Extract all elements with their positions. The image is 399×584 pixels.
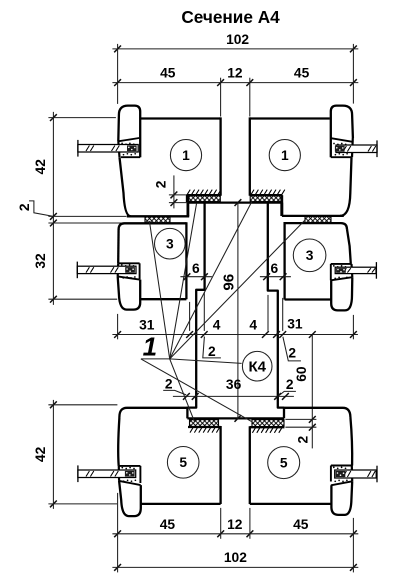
frame-3-left pocket bottom diagonal xyxy=(118,276,140,279)
svg-text:1: 1 xyxy=(143,332,157,362)
frame-5-right outer edge through pocket xyxy=(351,466,354,482)
svg-text:2: 2 xyxy=(17,203,32,211)
crosshatch seal under frame-1-left xyxy=(186,195,220,201)
svg-text:2: 2 xyxy=(286,377,294,392)
frame-3-left nose xyxy=(118,276,141,309)
svg-text:60: 60 xyxy=(294,366,309,382)
extension x=117.6 bottom xyxy=(117,493,119,573)
extension line y=223.0 left xyxy=(48,222,127,224)
frame-3-right left edge xyxy=(283,222,285,300)
leader ray to bottom-left seal xyxy=(170,359,195,422)
dimension 60-2 vertical line xyxy=(311,335,313,449)
frame-1-right outer edge through pocket xyxy=(351,138,354,157)
frame-1-right outer flange xyxy=(331,106,353,158)
dimension 2 top-junction ticks xyxy=(171,192,178,199)
svg-text:5: 5 xyxy=(179,455,187,470)
mullion upper-right outer wall xyxy=(280,203,283,216)
frame-5-left inner edge xyxy=(219,426,221,504)
frame-5-left rebate top edge xyxy=(188,426,221,428)
svg-text:36: 36 xyxy=(226,377,242,392)
frame-3-right nose xyxy=(331,277,352,310)
frame-5-right bar anchor end xyxy=(336,471,346,477)
frame-3-right pocket left edge xyxy=(330,264,332,280)
leader ray to left mullion seal xyxy=(170,203,197,359)
frame-1-right pocket top diagonal xyxy=(331,138,353,142)
dimension 2 mid-right leader xyxy=(283,337,301,361)
svg-text:45: 45 xyxy=(160,66,176,81)
frame-5-right inner edge xyxy=(249,426,251,504)
extension for mid ticks right-outer xyxy=(282,298,284,331)
mullion left wall with step xyxy=(187,203,204,419)
dimension 102 bottom ticks xyxy=(114,564,121,571)
frame-5-right steel bar xyxy=(335,470,377,478)
extension x=249.9 bottom xyxy=(249,508,251,539)
dimension 45-12-45 top line xyxy=(112,82,358,84)
frame-5-left pocket top edge xyxy=(119,465,141,467)
svg-text:К4: К4 xyxy=(248,358,266,375)
crosshatch seal under frame-1-right xyxy=(250,195,282,201)
extension x=220.7 bottom xyxy=(220,508,222,539)
frame-1-left steel bar xyxy=(78,145,138,153)
frame-3-left pocket top edge xyxy=(118,262,139,264)
frame-1-left pocket top diagonal xyxy=(118,138,139,141)
leader ray to K4 circle xyxy=(170,359,242,364)
frame-5-left pocket dots xyxy=(121,467,123,469)
frame-3-left bar anchor end xyxy=(125,267,135,273)
frame-5-left outer edge xyxy=(118,418,119,466)
frame-1-left outer edge through pocket xyxy=(118,141,119,157)
dimension 36 ticks xyxy=(183,393,190,400)
frame-3-right outer edge upper xyxy=(347,229,351,264)
circle label 1 left xyxy=(170,140,201,171)
frame-1-left pocket dots xyxy=(121,142,123,144)
leader ray to bottom-right seal xyxy=(141,359,252,422)
frame-5-right top edge with corner xyxy=(285,408,351,417)
svg-text:45: 45 xyxy=(293,517,309,532)
dimension 2 bottom-right leader xyxy=(279,391,296,395)
extension y=202.6 top-junction xyxy=(169,202,188,204)
dimension 2 left leader xyxy=(29,201,53,217)
frame-1-right box left edge xyxy=(249,117,251,195)
comb marks above left mullion seal xyxy=(187,190,221,196)
crosshatch seal frame1-frame3 left xyxy=(145,216,170,222)
frame-5-right rebate top edge xyxy=(250,426,285,428)
circle label 5 left xyxy=(167,447,199,479)
svg-text:102: 102 xyxy=(226,32,249,47)
extension y=427.2 right xyxy=(285,426,316,428)
frame-3-right outer edge through pocket xyxy=(350,264,353,277)
svg-text:6: 6 xyxy=(271,261,279,276)
frame-5-left top edge with corner xyxy=(119,408,187,418)
svg-text:6: 6 xyxy=(192,261,200,276)
dimension 45-12-45 bottom line xyxy=(112,533,358,535)
frame-5-left steel bar xyxy=(78,470,136,478)
dimension 102 top line xyxy=(112,48,358,50)
svg-text:32: 32 xyxy=(33,253,48,269)
svg-text:31: 31 xyxy=(139,318,155,333)
svg-text:4: 4 xyxy=(249,318,257,333)
leader ray to right frame seal xyxy=(170,220,306,359)
dimension 2 mid-left leader xyxy=(203,337,221,358)
extension x=117.6 mid xyxy=(117,314,119,339)
frame-3-left steel bar xyxy=(77,266,136,273)
frame-1-right steel bar xyxy=(336,145,377,153)
dimension 96 line xyxy=(237,203,239,419)
frame-1-left outer flange xyxy=(118,106,140,158)
leader label 1 underline xyxy=(141,358,170,360)
svg-text:31: 31 xyxy=(287,317,303,332)
svg-text:42: 42 xyxy=(33,446,48,462)
extension for mid ticks left-outer xyxy=(189,302,191,331)
svg-text:12: 12 xyxy=(227,517,243,532)
frame-5-right nose xyxy=(331,481,352,515)
extension line left outer top xyxy=(117,44,119,104)
svg-text:2: 2 xyxy=(165,377,173,392)
svg-text:96: 96 xyxy=(221,274,238,291)
frame-3-right pocket top edge xyxy=(331,263,351,265)
svg-text:3: 3 xyxy=(306,248,314,263)
svg-text:45: 45 xyxy=(160,517,176,532)
mullion right wall with step xyxy=(268,203,284,419)
frame-1-left box bottom edge xyxy=(186,194,220,196)
svg-text:Сечение А4: Сечение А4 xyxy=(181,7,280,27)
dimension 31-4-4-31 ticks xyxy=(114,331,121,338)
frame-3-left pocket dots xyxy=(121,264,123,266)
frame-3-left bottom edge xyxy=(140,298,186,300)
dimension 6 left ticks xyxy=(184,273,191,280)
frame-1-left box top edge xyxy=(141,117,221,119)
svg-text:12: 12 xyxy=(227,66,243,81)
circle label 3 right xyxy=(293,239,326,272)
crosshatch seal frame1-frame3 right xyxy=(305,216,331,222)
frame-5-left bar anchor end xyxy=(125,471,135,477)
frame-1-left pocket bottom edge xyxy=(121,156,140,158)
frame-5-right pocket bottom diagonal xyxy=(331,481,352,485)
extension line y=117.6 left xyxy=(48,117,116,119)
frame-3-left top edge with corner xyxy=(119,223,187,229)
frame-5-left pocket bottom diagonal xyxy=(119,481,141,485)
frame-1-left flange lower outer edge xyxy=(120,157,131,216)
extension for mid ticks right-inner xyxy=(267,295,269,331)
svg-text:45: 45 xyxy=(294,66,310,81)
svg-text:5: 5 xyxy=(280,455,288,470)
extension line x=220.6 top xyxy=(220,78,222,117)
mullion bottom edge xyxy=(187,417,284,419)
extension line y=404.8 left xyxy=(48,404,117,406)
frame-1-right pocket bottom edge xyxy=(331,156,352,158)
frame-5-right outer edge xyxy=(350,417,352,466)
frame-3-right pocket bottom diagonal xyxy=(331,277,353,280)
svg-text:2: 2 xyxy=(288,346,296,361)
dimension 2 top-junction line xyxy=(173,175,175,208)
dimension 42 left-bottom ticks xyxy=(50,401,57,408)
svg-text:4: 4 xyxy=(213,318,221,333)
extension line right outer top xyxy=(352,44,354,104)
dimension 31-4-4-31 line xyxy=(112,334,358,336)
frame-1-left box right edge xyxy=(219,117,221,195)
dimension 45-12-45 bottom ticks xyxy=(114,530,121,537)
frame-3-left pocket right edge xyxy=(139,263,141,279)
frame-1-right box top edge xyxy=(250,117,330,119)
dimension 36 line xyxy=(173,395,294,397)
frame-1-right step wall xyxy=(280,195,283,216)
dimension 2 bottom-left leader xyxy=(163,390,186,395)
svg-text:3: 3 xyxy=(166,237,174,252)
extension y=194.9 top-junction xyxy=(169,194,186,196)
extension x=353.4 bottom xyxy=(352,518,354,573)
frame-5-right pocket dots xyxy=(333,467,335,469)
circle label 3 left xyxy=(155,228,186,259)
extension x=353.4 mid xyxy=(352,315,354,339)
dimension 45-12-45 top ticks xyxy=(114,79,121,86)
comb marks below frame-5-left seal xyxy=(190,427,220,433)
frame-1-left bar anchor end xyxy=(127,145,137,151)
frame-5-left nose xyxy=(119,481,141,516)
circle label 5 right xyxy=(268,447,300,479)
dimension column left ticks xyxy=(50,114,57,121)
frame-5-right pocket top edge xyxy=(331,465,352,467)
frame-1-right bar anchor end xyxy=(335,146,345,152)
frame-1-right box bottom edge xyxy=(250,194,282,196)
dimension 96 ticks xyxy=(235,199,242,206)
extension line y=299.2 left xyxy=(48,298,117,300)
frame-1-right flange lower outer edge xyxy=(340,157,352,216)
svg-text:2: 2 xyxy=(154,180,169,188)
dimension 42 left-bottom line xyxy=(52,400,54,509)
frame-5-left pocket right edge xyxy=(139,466,141,483)
dimension 102 bottom line xyxy=(112,566,358,568)
leader ray to right mullion seal xyxy=(170,201,253,359)
mullion top edge xyxy=(188,201,283,203)
frame-3-left outer edge upper xyxy=(117,229,120,263)
svg-text:1: 1 xyxy=(182,148,190,163)
frame-3-right pocket dots xyxy=(333,265,335,267)
extension y=419.4 right xyxy=(285,418,316,420)
svg-text:1: 1 xyxy=(281,148,289,163)
extension line x=249.8 top xyxy=(249,78,251,117)
svg-text:2: 2 xyxy=(208,344,216,359)
leader ray to left frame seal xyxy=(149,221,169,359)
circle label 1 right xyxy=(269,140,300,171)
extension line y=503.9 left xyxy=(48,503,117,505)
frame-1-left bottom ledge xyxy=(127,215,189,217)
extension line y=216.4 left xyxy=(48,215,126,217)
comb marks above right mullion seal xyxy=(251,190,285,196)
frame-5-left bottom edge xyxy=(141,503,221,505)
comb marks below frame-5-right seal xyxy=(252,427,282,433)
circle label K4 xyxy=(242,351,272,381)
frame-3-right steel bar xyxy=(335,267,376,273)
crosshatch seal above frame-5-right xyxy=(252,420,284,427)
extension for mid ticks left-inner xyxy=(203,292,205,331)
svg-text:102: 102 xyxy=(224,550,247,565)
frame-3-left outer edge through pocket xyxy=(117,263,120,276)
dimension column left line xyxy=(52,112,54,305)
frame-3-left right edge xyxy=(185,222,187,299)
dimension 6 right line xyxy=(260,276,291,278)
dimension 102 top ticks xyxy=(114,46,121,53)
dimension 6 right ticks xyxy=(263,273,270,280)
frame-1-right pocket dots xyxy=(333,143,335,145)
frame-3-right top edge with corner xyxy=(285,223,347,229)
crosshatch seal above frame-5-left xyxy=(190,420,219,427)
frame-3-right bar anchor end xyxy=(336,268,346,273)
dimension 6 left line xyxy=(180,276,212,278)
frame-3-right bottom edge xyxy=(285,298,331,300)
frame-1-left step wall xyxy=(186,195,189,216)
frame-1-right bottom ledge xyxy=(282,215,344,217)
svg-text:2: 2 xyxy=(295,435,310,443)
svg-text:42: 42 xyxy=(33,159,48,175)
frame-5-left outer edge through pocket xyxy=(118,466,120,481)
frame-5-right pocket left edge xyxy=(330,466,332,482)
dimension 60-2 ticks xyxy=(309,331,316,338)
frame-5-right bottom edge xyxy=(250,503,331,505)
